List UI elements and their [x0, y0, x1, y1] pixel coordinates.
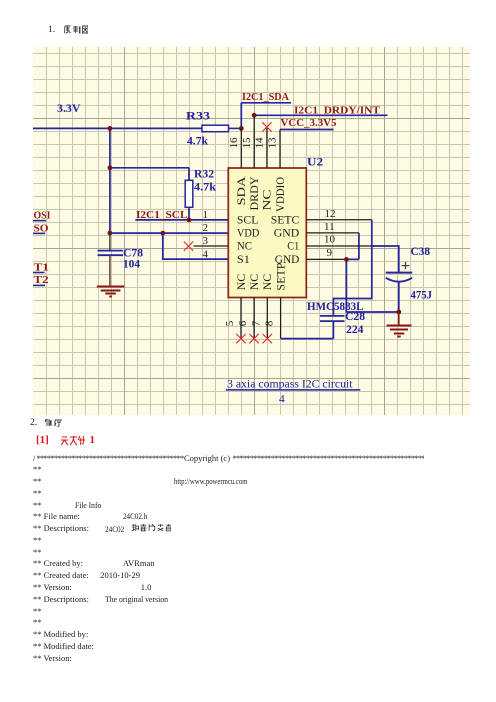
wire 3.3V rail	[33, 127, 202, 129]
pin names right	[271, 212, 300, 266]
pin 13 VDDIO	[267, 130, 280, 169]
wire vertical branch from 3.3V rail	[109, 128, 111, 233]
sheet title 3 axis compass I2C circuit	[226, 378, 360, 405]
pin 15 DRDY	[241, 116, 254, 168]
capacitor C78	[98, 233, 143, 286]
junction at R32 branch	[108, 165, 113, 170]
pin 9 GND wire	[306, 247, 399, 312]
node MOSI stub	[33, 209, 51, 221]
heading [1] header-file red	[36, 434, 49, 446]
pin names left	[237, 212, 260, 266]
heading 1. schematic	[48, 25, 55, 35]
op-amp U2 HMC5883L chip body	[228, 154, 323, 297]
pin 16 SDA	[228, 128, 241, 168]
node I2C1_DRDY/INT label	[294, 104, 381, 116]
pin 7 NC no-connect	[250, 298, 272, 344]
pin 12 SETC wire	[306, 208, 372, 315]
wire net I2C1_SDA	[241, 103, 291, 129]
pin numbers left 1-4	[203, 209, 209, 260]
capacitor C28	[320, 309, 365, 336]
node I2C1_SDA label	[242, 91, 289, 103]
pin names top vertical	[234, 176, 287, 212]
node INT2 stub	[33, 274, 49, 286]
chip part number HMC5883L	[307, 299, 364, 313]
pin 8 SETP wire	[264, 298, 334, 339]
pin 14 NC no-connect	[254, 122, 272, 168]
node MISO stub	[33, 223, 49, 235]
pin 11 GND wire	[306, 221, 359, 260]
grid background	[33, 47, 470, 415]
pin 10 C1 wire to C38	[306, 234, 399, 273]
junction C38 bottom	[396, 310, 401, 315]
heading 2. program	[30, 418, 37, 428]
node VCC_3.3V5 label	[281, 117, 337, 129]
wire net VCC_3.3V5	[280, 129, 334, 131]
pin names bottom vertical	[234, 262, 288, 290]
junction on 3.3V rail	[108, 126, 113, 131]
junction VDD rail	[108, 231, 113, 236]
node INT1 stub	[33, 261, 49, 273]
ground below C78	[97, 287, 125, 297]
wire net I2C1_DRDY/INT	[254, 114, 387, 116]
ground below C38	[387, 312, 412, 337]
junction pin9	[344, 257, 349, 262]
wire net I2C1_SCL / pin1	[135, 219, 228, 221]
node I2C1_SCL label	[136, 209, 188, 221]
junction pin15 corner	[252, 113, 257, 118]
junction S1 branch	[160, 231, 165, 236]
pin 3 NC no-connect stub	[184, 242, 229, 251]
node 3.3V label	[57, 101, 81, 115]
capacitor C38 polarized	[386, 244, 432, 312]
pin 6 NC no-connect	[237, 298, 259, 344]
junction R33 / pin16	[239, 126, 244, 131]
resistor R32	[185, 166, 216, 220]
resistor R33	[186, 109, 241, 148]
wire S1 jog to pin4	[163, 233, 229, 259]
wire VDD pin2	[110, 232, 228, 234]
wire to R32 top	[110, 168, 189, 181]
junction R32 bottom	[187, 218, 192, 223]
pin 5 NC no-connect	[224, 298, 246, 344]
